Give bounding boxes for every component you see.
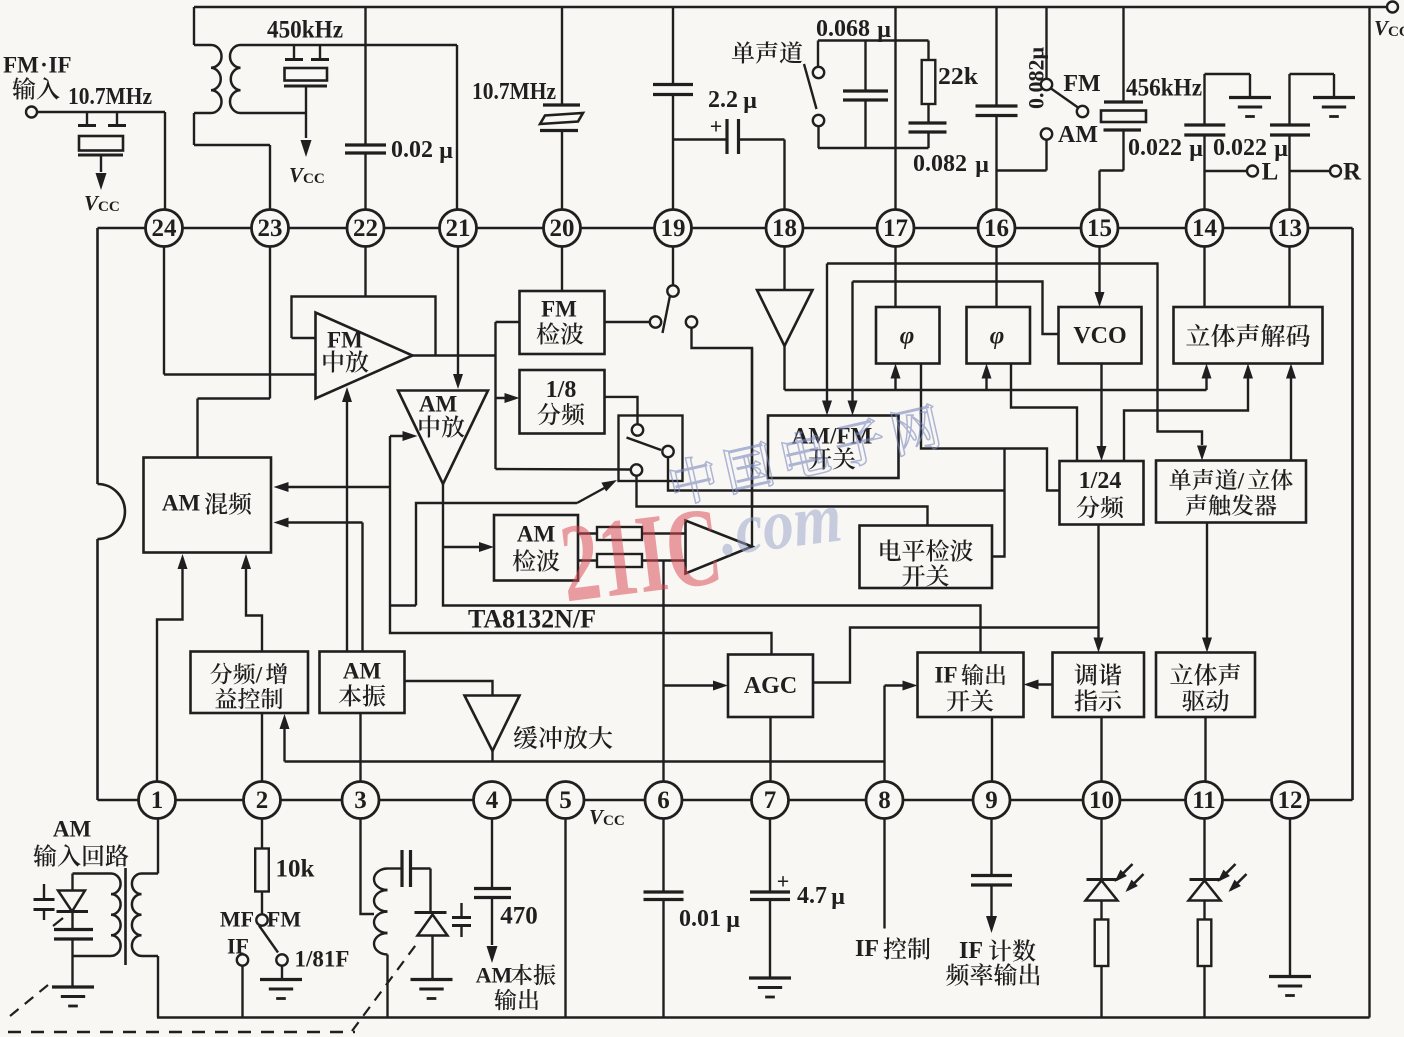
svg-text:1/24: 1/24: [1079, 468, 1122, 494]
arrow gain control into AM mixer: [246, 561, 262, 652]
block 立体声驱动 (stereo driver): [1156, 653, 1255, 718]
svg-text:1: 1: [151, 787, 164, 814]
svg-text:φ: φ: [990, 323, 1005, 350]
block 电平检波 开关 (level detector switch): [860, 526, 993, 589]
LED indicator on pin 10: [1100, 819, 1102, 879]
wire buffer line to switch arrow: [416, 503, 577, 606]
resistor AM det out upper: [578, 532, 597, 534]
pin 10: [1083, 782, 1120, 819]
power VCC arrow below 10.7MHz filter: [96, 173, 107, 190]
svg-text:FM: FM: [1063, 71, 1100, 97]
block 立体声解码 (stereo decoder): [1174, 307, 1323, 364]
light arrows pin 11: [1220, 864, 1236, 880]
wire buffer output line: [491, 751, 493, 762]
ground near pin 14: [1229, 96, 1271, 99]
svg-text:μ: μ: [1274, 136, 1288, 162]
arrow pin 1 into AM mixer: [157, 561, 183, 782]
arrow pin8 into IF output switch: [885, 684, 911, 686]
svg-text:15: 15: [1087, 215, 1112, 242]
arrow bus into phase det 2: [985, 371, 987, 390]
wire tank to ground: [71, 956, 73, 986]
mono switch network top wire: [818, 39, 929, 41]
wire pin 19 from VCC rail: [672, 7, 674, 84]
pin 5: [547, 782, 584, 819]
svg-text:10: 10: [1089, 787, 1114, 814]
wire pin 13 to stereo decoder: [1288, 247, 1290, 308]
ground AM input tank: [52, 985, 94, 988]
arrow AM osc up into FM amp triangle: [346, 393, 348, 652]
amplifier 缓冲放大 (buffer): [465, 696, 520, 752]
svg-text:μ: μ: [877, 17, 891, 43]
svg-text:10k: 10k: [276, 856, 315, 883]
wire FM amp feedback loop via pin 22: [364, 247, 366, 297]
pin 1: [139, 782, 176, 819]
pin 8: [866, 782, 903, 819]
svg-text:1/8: 1/8: [546, 377, 577, 403]
svg-text:22k: 22k: [938, 64, 979, 90]
svg-text:FM: FM: [327, 328, 363, 353]
wire pin 22 from VCC rail: [364, 7, 366, 144]
pin 11: [1186, 782, 1223, 819]
trimmer capacitor osc tank: [460, 903, 462, 917]
wire switch common to AM det line: [668, 457, 1005, 491]
wire pin 17 to phase det 1: [894, 247, 896, 308]
wire 1/8 divider output to switch: [605, 397, 638, 425]
capacitor 0.02u on pin 22: [345, 143, 386, 146]
switch FM det output SPDT (pin 19): [650, 316, 661, 327]
block AM/FM 开关 (AM/FM switch): [768, 416, 899, 479]
dashed gang line to osc tank: [352, 942, 418, 1031]
arrow IF counter output: [986, 916, 997, 933]
wire pin 16 from VCC rail: [995, 7, 997, 106]
svg-text:μ: μ: [975, 152, 989, 178]
arrow pin 21 into AM IF amp: [457, 247, 459, 382]
wire pin 14 to stereo decoder: [1203, 247, 1205, 308]
block 1/24 分频 (1/24 divider): [1060, 461, 1144, 525]
svg-text:μ: μ: [1189, 136, 1203, 162]
wire pin 2 into gain control: [261, 713, 263, 782]
svg-text:10.7MHz: 10.7MHz: [472, 79, 556, 105]
svg-text:MF: MF: [220, 907, 254, 932]
pin 18: [766, 210, 803, 247]
wire FM-IF input to pin 24: [37, 111, 165, 113]
pin 4: [474, 782, 511, 819]
pin 20: [544, 210, 581, 247]
wire to divider switch box: [496, 468, 632, 471]
wire AM osc output to buffer amp: [405, 681, 493, 696]
junction 450kHz wire crosses pin22 line: [456, 45, 458, 211]
wire pin 8 to IF output switch: [883, 686, 885, 782]
arrow diagonal into switch box: [577, 486, 608, 503]
wire pin 12 to ground: [1289, 819, 1291, 976]
block phase detector 2: [967, 307, 1031, 364]
svg-text:IF: IF: [935, 663, 958, 688]
wire to pin 15: [1098, 171, 1100, 212]
svg-text:μ: μ: [831, 884, 845, 910]
block 分频/增益控制 (divider/gain control): [191, 652, 309, 714]
wire bottom ground rail: [157, 1016, 1370, 1019]
arrow AM osc into AM mixer input 2: [281, 521, 363, 523]
svg-text:AM: AM: [517, 522, 556, 547]
svg-text:0.02: 0.02: [391, 137, 433, 163]
dashed gang line left: [10, 985, 48, 1016]
svg-text:4: 4: [486, 787, 499, 814]
block AM 混频 (AM mixer): [144, 458, 272, 553]
svg-text:AGC: AGC: [744, 673, 797, 699]
ground below 4.7u: [749, 976, 791, 979]
arrow tuning indicator into IF output switch: [1031, 683, 1053, 685]
svg-text:2: 2: [256, 787, 269, 814]
wire pin 23 to AM mixer: [269, 228, 271, 399]
resistor 22k: [927, 41, 929, 61]
power VCC arrow below 450kHz filter: [301, 140, 312, 157]
svg-text:.com: .com: [715, 477, 846, 571]
svg-text:23: 23: [258, 215, 283, 242]
block VCO: [1059, 307, 1142, 364]
svg-text:/: /: [255, 662, 263, 687]
svg-text:AM: AM: [1058, 122, 1098, 148]
svg-text:VCO: VCO: [1073, 323, 1126, 349]
wire rail B to VCO input: [853, 282, 1059, 335]
amplifier AM 中放 (AM IF amp): [398, 391, 488, 485]
svg-text:456kHz: 456kHz: [1126, 75, 1202, 102]
watermark 中国电子网: [668, 402, 942, 507]
svg-text:9: 9: [985, 787, 998, 814]
arrow into AM mixer input 1: [281, 486, 390, 488]
arrow pin 15 into VCO: [1098, 247, 1100, 300]
svg-text:0.022: 0.022: [1128, 135, 1182, 161]
block IF输出 开关 (IF output switch): [918, 653, 1024, 718]
mono network bottom wire: [818, 147, 929, 149]
arrow 1/24 divider into tuning indicator: [1097, 525, 1099, 646]
svg-text:FM: FM: [3, 53, 39, 78]
svg-text:μ: μ: [726, 907, 740, 933]
resistor pin 10: [1100, 901, 1102, 920]
switch box after 1/8 divider: [619, 416, 683, 482]
watermark 21IC.com: [554, 469, 850, 627]
svg-text:VCC: VCC: [289, 163, 325, 187]
svg-text:1/81F: 1/81F: [295, 947, 350, 972]
svg-text:12: 12: [1278, 787, 1303, 814]
svg-text:470: 470: [500, 903, 538, 930]
block FM 检波 (FM detector): [520, 291, 605, 354]
capacitor 0.082u below 22k: [927, 104, 929, 123]
amplifier pin 18 buffer triangle: [783, 247, 785, 291]
pin 23: [252, 210, 289, 247]
svg-text:19: 19: [661, 215, 686, 242]
arrow comparator line into AGC: [664, 684, 721, 686]
svg-text:μ: μ: [439, 138, 453, 164]
svg-text:·: ·: [40, 53, 48, 78]
trimmer capacitor AM input: [43, 884, 45, 899]
svg-text:16: 16: [984, 215, 1009, 242]
oscillator coil on pin 3: [361, 819, 375, 915]
svg-text:17: 17: [883, 215, 908, 242]
svg-text:11: 11: [1192, 787, 1216, 814]
node FM-IF input terminal: [26, 107, 37, 118]
wire pin 20 to FM detector: [561, 247, 563, 292]
wire pin 8 IF control stub: [883, 819, 885, 929]
wire level detector output: [992, 449, 1005, 557]
wire AGC to pin 7: [769, 717, 771, 782]
arrow AM amp output into AM detector: [443, 546, 486, 548]
pin 16: [978, 210, 1015, 247]
svg-text:IF: IF: [855, 936, 879, 962]
arrow rail B into AM/FM switch: [851, 282, 853, 409]
ground near pin 13: [1313, 96, 1355, 99]
pin 21: [440, 210, 477, 247]
wire trigger to stereo decoder arrow: [1290, 371, 1292, 461]
svg-text:0.022: 0.022: [1213, 135, 1267, 161]
pin 12: [1272, 782, 1309, 819]
svg-text:21IC: 21IC: [554, 484, 728, 627]
switch MF/IF - FM/1-81F: [261, 892, 263, 915]
wire switch lower contact line: [637, 476, 928, 526]
capacitor on pin 16: [976, 104, 1018, 107]
svg-text:450kHz: 450kHz: [267, 17, 343, 44]
block AGC: [728, 655, 813, 718]
wire pin 5 VCC: [564, 819, 566, 1018]
arrow AM osc output: [487, 946, 498, 963]
switch 单声道 mono: [732, 41, 754, 63]
arrow trigger into stereo driver: [1206, 523, 1208, 646]
svg-text:+: +: [710, 114, 723, 139]
svg-text:VCC: VCC: [589, 805, 625, 829]
pin 9: [973, 782, 1010, 819]
node R output terminal: [1290, 170, 1331, 172]
svg-text:AM: AM: [476, 963, 513, 988]
transformer T2 AM input: [157, 819, 159, 874]
svg-text:IF: IF: [49, 53, 72, 78]
arrow VCO output into 1/24 divider: [1100, 364, 1102, 454]
svg-text:FM: FM: [541, 297, 577, 322]
svg-text:18: 18: [772, 215, 797, 242]
svg-text:22: 22: [353, 215, 378, 242]
dashed gang line bottom: [8, 1031, 355, 1034]
ground below band switch: [281, 966, 283, 979]
svg-text:14: 14: [1192, 215, 1218, 242]
capacitor on pin 9: [990, 819, 992, 875]
pin 17: [877, 210, 914, 247]
capacitor AM input tank: [71, 912, 73, 929]
wire pin18 to main bus: [783, 346, 785, 390]
wire AGC output to tuning indicator line: [813, 628, 1099, 683]
wire pin 17 from VCC rail: [894, 7, 896, 211]
svg-text:AM: AM: [419, 392, 458, 417]
svg-text:R: R: [1343, 159, 1362, 186]
switch FM/AM band select: [1045, 7, 1047, 79]
svg-text:24: 24: [152, 215, 178, 242]
wire FM amp output: [413, 354, 496, 356]
ground osc tank: [411, 978, 453, 981]
svg-text:8: 8: [878, 787, 891, 814]
svg-text:3: 3: [354, 787, 367, 814]
svg-text:0.082μ: 0.082μ: [1024, 46, 1049, 109]
block 1/8 分频 (1/8 divider): [520, 370, 605, 434]
amplifier comparator: [686, 521, 753, 574]
wire IF output switch to pin 9: [991, 717, 993, 782]
pin 2: [244, 782, 281, 819]
arrow bus up into stereo decoder: [1205, 371, 1207, 390]
svg-text:0.068: 0.068: [816, 16, 870, 42]
pin 7: [752, 782, 789, 819]
wire pin 20 from VCC rail: [561, 7, 563, 104]
svg-text:20: 20: [550, 215, 575, 242]
wire AM IF amp output down: [443, 484, 981, 653]
block 单声道/立体声触发器 (mono/stereo trigger): [1156, 461, 1306, 523]
resistor AM det out lower: [578, 559, 597, 561]
varactor diode AM input tank: [71, 874, 73, 891]
pin 14: [1186, 210, 1223, 247]
node L output terminal: [1205, 170, 1248, 172]
wire phase det2 output staircase to 1/24 divider: [1011, 364, 1077, 462]
pin 6: [645, 782, 682, 819]
svg-text:10.7MHz: 10.7MHz: [68, 84, 152, 110]
svg-text:AM: AM: [162, 491, 201, 516]
pin 13: [1271, 210, 1308, 247]
wire pin 3 into AM osc: [359, 713, 361, 782]
block AM 检波 (AM detector): [494, 515, 578, 581]
capacitor on pin 19: [653, 83, 693, 86]
capacitor 470 on pin 4: [491, 819, 493, 888]
amplifier FM 中放 (FM IF amp): [316, 313, 413, 399]
pin 3: [342, 782, 379, 819]
wire IF contact to ground rail: [241, 966, 243, 1018]
svg-text:21: 21: [446, 215, 471, 242]
wire stereo driver to pin 11: [1204, 717, 1206, 782]
arrow AGC line into AM IF amp: [390, 435, 410, 437]
pin 15: [1081, 210, 1118, 247]
svg-text:13: 13: [1277, 215, 1302, 242]
wire pin 16 to phase det 2: [995, 247, 997, 308]
arrow bus into phase det 1: [894, 371, 896, 390]
capacitor osc tank top: [388, 867, 402, 869]
svg-text:5: 5: [559, 787, 572, 814]
light arrows pin 10: [1117, 864, 1133, 880]
wire AGC vertical line: [390, 436, 772, 655]
capacitor 4.7u electrolytic on pin 7: [769, 819, 771, 892]
svg-text:φ: φ: [900, 323, 915, 350]
capacitor 0.068u: [864, 41, 866, 91]
arrow buffer line into gain control: [283, 721, 285, 762]
svg-text:L: L: [1262, 159, 1279, 186]
wire outer VCC rail right side: [1368, 7, 1370, 1018]
svg-text:IF: IF: [959, 938, 983, 964]
varactor diode osc tank: [429, 869, 431, 913]
wire phase det1 output staircase to 1/24 divider: [921, 364, 1060, 491]
svg-text:μ: μ: [743, 88, 757, 114]
pin 19: [655, 210, 692, 247]
ground pin 12: [1269, 975, 1311, 978]
block phase detector 1: [876, 307, 940, 364]
svg-text:0.082: 0.082: [913, 151, 967, 177]
ceramic filter 450kHz: [293, 45, 295, 58]
svg-text:2.2: 2.2: [708, 87, 738, 113]
svg-text:+: +: [777, 869, 790, 894]
block 调谐指示 (tuning indicator): [1053, 653, 1145, 718]
wire to pin 23: [269, 145, 271, 211]
resistor pin 11: [1203, 901, 1205, 920]
capacitor 0.01u on pin 6: [662, 819, 664, 892]
wire FM detector output to switch: [605, 321, 651, 323]
block AM 本振 (AM local oscillator): [320, 652, 405, 714]
svg-text:/: /: [1237, 468, 1245, 493]
wire comparator output up to level detector: [751, 348, 753, 507]
svg-text:6: 6: [657, 787, 670, 814]
capacitor 0.022u on pin 14: [1203, 136, 1205, 212]
node VCC terminal top right: [1387, 2, 1398, 13]
svg-text:VCC: VCC: [84, 191, 120, 215]
svg-text:4.7: 4.7: [797, 883, 827, 909]
wire switch to level-detect rail: [692, 328, 753, 547]
svg-text:AM: AM: [343, 659, 382, 684]
pin 24: [146, 210, 183, 247]
resistor 10k on pin 2: [261, 819, 263, 849]
wire main bus: [785, 389, 1207, 391]
wire resistor line down to pin 6: [662, 561, 664, 782]
svg-text:FM: FM: [267, 907, 301, 932]
wire tuning indicator to pin 10: [1100, 717, 1102, 782]
arrow into 1/8 divider: [496, 397, 513, 399]
wire 1/24 top to decoder arrow: [1124, 371, 1248, 461]
svg-text:0.01: 0.01: [679, 906, 721, 932]
wire rail A (pins 15-13 region to trigger): [827, 264, 1202, 446]
wire pin 24 to FM IF amp input: [163, 228, 165, 375]
svg-text:7: 7: [764, 787, 777, 814]
svg-text:AM: AM: [53, 817, 92, 842]
arrow rail A into AM/FM switch: [826, 264, 828, 409]
svg-text:VCC: VCC: [1374, 16, 1404, 40]
wire to pin 18: [783, 140, 785, 212]
IC TA8132N/F package outline: [98, 227, 1353, 230]
ceramic filter 456kHz on pin 15: [1122, 7, 1124, 101]
LED indicator on pin 11: [1203, 819, 1205, 879]
wire top VCC rail: [194, 6, 1392, 9]
pin 22: [347, 210, 384, 247]
capacitor 0.022u on pin 13: [1288, 136, 1290, 212]
